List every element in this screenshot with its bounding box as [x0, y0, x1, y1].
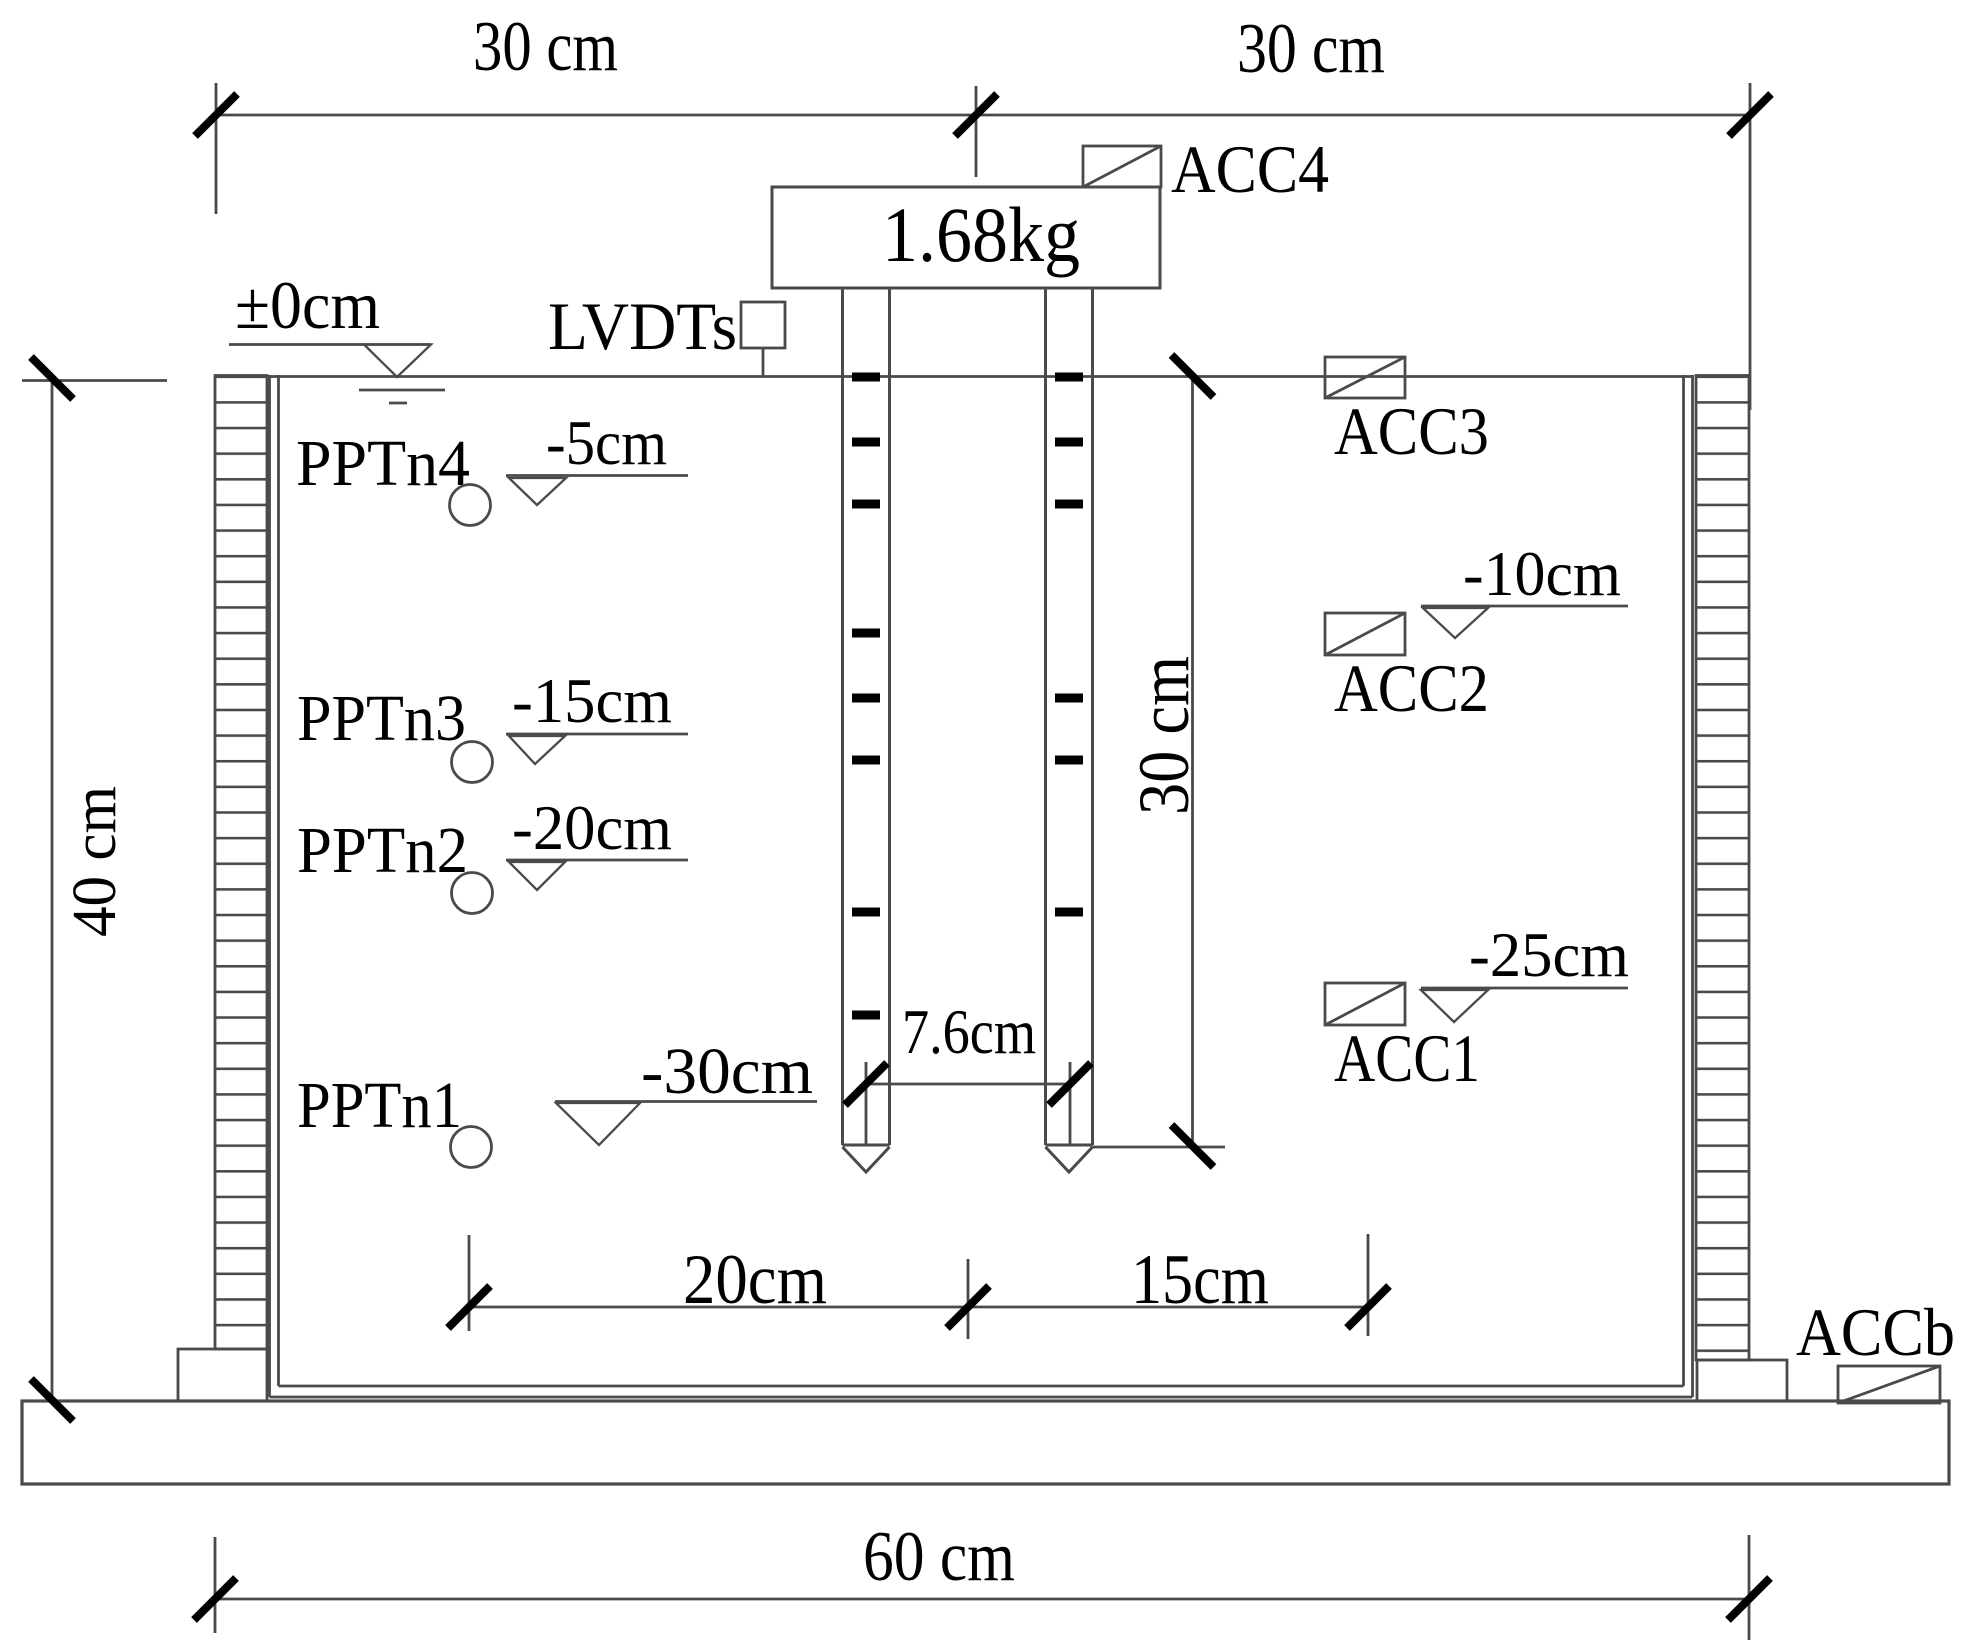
- container bottom double line: [279, 1385, 1684, 1388]
- svg-text:ACC4: ACC4: [1171, 131, 1329, 207]
- right wall foot block: [1697, 1360, 1787, 1401]
- LVDT sensor square: [741, 302, 785, 348]
- svg-text:15cm: 15cm: [1131, 1241, 1269, 1319]
- tick top dim left: [195, 94, 237, 136]
- svg-text:LVDTs: LVDTs: [548, 288, 737, 364]
- svg-text:7.6cm: 7.6cm: [902, 996, 1036, 1067]
- water level triangle: [364, 345, 431, 378]
- tick 60cm left: [194, 1578, 236, 1620]
- right laminar wall: [1696, 376, 1749, 1361]
- tick 20cm left: [448, 1286, 490, 1328]
- accelerometer ACC3 icon: [1325, 357, 1405, 398]
- accelerometer ACC4 icon: [1083, 146, 1161, 187]
- svg-text:30 cm: 30 cm: [473, 8, 618, 86]
- tick pile-30cm top: [1172, 355, 1214, 397]
- left container inner wall double line: [268, 375, 271, 1397]
- svg-text:PPTn4: PPTn4: [296, 427, 470, 500]
- svg-text:-30cm: -30cm: [641, 1035, 813, 1108]
- svg-text:30 cm: 30 cm: [1124, 656, 1204, 815]
- PPT sensor PPTn1 circle: [451, 1127, 492, 1168]
- svg-text:20cm: 20cm: [683, 1241, 827, 1319]
- svg-text:PPTn2: PPTn2: [297, 814, 468, 887]
- svg-text:PPTn1: PPTn1: [297, 1069, 462, 1142]
- PPT sensor PPTn2 circle: [452, 873, 493, 914]
- strain gauges on right pile: [1055, 373, 1083, 917]
- accelerometer ACCb icon: [1838, 1366, 1940, 1403]
- dimension line 40 cm (left vertical): [22, 380, 167, 1401]
- water table mark lines: [359, 389, 445, 392]
- pile cap mass 1.68kg box: [772, 187, 1160, 288]
- base plate: [22, 1401, 1949, 1484]
- depth marker -15cm: [506, 733, 688, 736]
- water level line: [229, 343, 431, 346]
- dimension lines 20cm / 15cm: [469, 1234, 1368, 1339]
- svg-text:-25cm: -25cm: [1469, 919, 1629, 990]
- svg-text:±0cm: ±0cm: [235, 267, 380, 343]
- svg-text:PPTn3: PPTn3: [297, 682, 466, 755]
- pile right (model pile 2): [1046, 288, 1093, 1172]
- dimension line 30 cm pile embedment (vertical): [1093, 376, 1226, 1147]
- svg-text:ACC3: ACC3: [1334, 393, 1489, 469]
- svg-text:ACC2: ACC2: [1334, 650, 1489, 726]
- svg-text:-15cm: -15cm: [512, 665, 672, 736]
- svg-text:ACCb: ACCb: [1796, 1294, 1955, 1370]
- dimension line 60 cm bottom: [215, 1535, 1749, 1640]
- svg-text:30 cm: 30 cm: [1237, 10, 1385, 88]
- depth marker -10cm: [1421, 605, 1628, 608]
- svg-text:40 cm: 40 cm: [61, 786, 129, 937]
- tick pile-30cm bottom: [1172, 1125, 1214, 1167]
- tick 15cm right: [1347, 1286, 1389, 1328]
- depth marker -5cm: [506, 474, 688, 477]
- tick 60cm right: [1728, 1578, 1770, 1620]
- tick 7.6cm left: [845, 1063, 887, 1105]
- dimension line 30cm top-left span: [216, 83, 1750, 410]
- tick 40cm bottom: [31, 1379, 73, 1421]
- svg-text:-10cm: -10cm: [1463, 538, 1621, 609]
- strain gauges on left pile: [852, 373, 880, 1020]
- tick top dim right: [1729, 94, 1771, 136]
- dimension 7.6cm between piles: [866, 1062, 1070, 1145]
- tick 40cm top: [31, 357, 73, 399]
- right container inner wall double line: [1682, 375, 1685, 1386]
- accelerometer ACC2 icon: [1325, 613, 1405, 655]
- depth marker -30cm: [555, 1100, 817, 1103]
- accelerometer ACC1 icon: [1325, 983, 1405, 1025]
- svg-text:60 cm: 60 cm: [863, 1518, 1015, 1596]
- tick 7.6cm right: [1049, 1063, 1091, 1105]
- left laminar wall: [215, 376, 267, 1350]
- left wall foot block: [178, 1349, 267, 1401]
- depth marker -25cm: [1421, 987, 1628, 990]
- svg-text:ACC1: ACC1: [1334, 1020, 1480, 1096]
- PPT sensor PPTn4 circle: [450, 485, 491, 526]
- PPT sensor PPTn3 circle: [452, 742, 493, 783]
- svg-text:-5cm: -5cm: [546, 407, 667, 478]
- soil surface line: [269, 375, 1694, 378]
- tick 20/15cm middle: [947, 1286, 989, 1328]
- svg-text:1.68kg: 1.68kg: [882, 191, 1080, 278]
- pile left (model pile 1): [843, 288, 890, 1172]
- svg-text:-20cm: -20cm: [512, 792, 672, 863]
- tick top dim middle: [955, 94, 997, 136]
- depth marker -20cm: [506, 859, 688, 862]
- wire LVDT stem: [762, 348, 765, 377]
